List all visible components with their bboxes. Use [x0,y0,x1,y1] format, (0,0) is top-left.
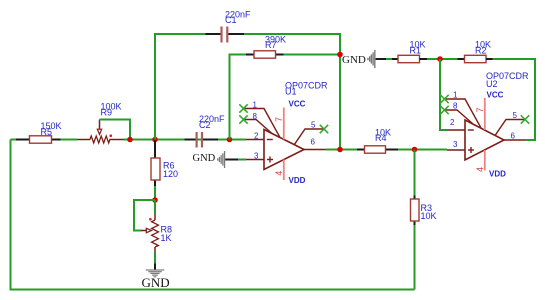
wire [326,149,448,151]
svg-text:VCC: VCC [487,91,504,100]
wire [458,58,465,60]
op-amp U2 [440,71,529,179]
node junction [337,52,343,58]
svg-text:2: 2 [450,118,455,127]
svg-text:6: 6 [511,132,516,141]
svg-text:GND: GND [142,275,170,290]
wire [493,59,536,140]
node junction [227,137,233,143]
svg-text:C2: C2 [199,120,211,130]
resistor R6 [151,141,178,187]
svg-text:GND: GND [193,153,216,164]
wire [386,149,399,151]
svg-text:1: 1 [253,101,258,110]
wire [414,221,416,225]
node junction [127,137,133,143]
wire [238,159,246,161]
svg-text:R1: R1 [410,46,422,56]
svg-text:5: 5 [311,121,316,130]
node junction [412,147,418,153]
svg-text:4: 4 [475,167,485,172]
wire [225,159,238,161]
op-amp U1 [239,81,328,186]
wire [504,139,525,141]
wire [154,252,156,264]
wire [244,34,340,150]
svg-text:U1: U1 [285,87,297,97]
wire [11,140,415,290]
ground (top) [342,50,376,68]
resistor R7 [254,35,286,59]
svg-text:VDD: VDD [489,170,506,179]
svg-text:R7: R7 [265,40,277,50]
wire [392,58,398,60]
svg-text:7: 7 [274,117,284,122]
svg-text:7: 7 [475,107,485,112]
svg-text:VDD: VDD [289,176,306,185]
svg-text:8: 8 [453,102,458,111]
wire [414,225,416,290]
wire [100,120,131,140]
wire [154,200,156,214]
svg-text:8: 8 [253,112,258,121]
resistor R3 [411,199,437,221]
wire [134,200,155,231]
svg-text:R9: R9 [101,108,113,118]
wire [386,58,392,60]
wire [486,58,493,60]
resistor R1 [398,40,426,63]
svg-text:6: 6 [311,138,316,147]
wire [154,186,156,200]
wire [414,150,416,196]
ground (bottom) [142,269,170,290]
wire [376,58,386,60]
svg-text:C1: C1 [225,15,237,25]
node junction [152,197,158,203]
svg-text:U2: U2 [486,79,498,89]
node junction [337,147,343,153]
wire [11,139,78,141]
svg-text:R4: R4 [375,133,387,143]
svg-text:R2: R2 [475,46,487,56]
svg-text:120: 120 [163,169,178,179]
wire [124,139,246,141]
node junction [152,137,158,143]
svg-text:VCC: VCC [289,100,306,109]
svg-text:10K: 10K [421,211,437,221]
wire [16,139,30,141]
svg-text:1: 1 [453,91,458,100]
resistor R4 [365,128,392,154]
wire [440,59,447,130]
wire [155,34,206,140]
wire [357,149,365,151]
wire [246,54,254,56]
svg-text:1K: 1K [161,233,172,243]
wire [230,55,247,140]
resistor R5 [30,121,62,143]
capacitor C1 [206,10,252,43]
potentiometer R9 [77,102,124,144]
wire [414,196,416,200]
wire [52,139,61,141]
wire [304,149,326,151]
svg-text:3: 3 [453,140,458,149]
wire [420,58,428,60]
potentiometer R8 [141,214,172,252]
wire [427,58,458,60]
node junction [437,56,443,62]
ground (C2 side) [193,151,226,168]
resistor R2 [465,40,492,63]
svg-text:5: 5 [513,111,518,120]
wire [276,54,284,56]
svg-text:GND: GND [342,54,366,66]
svg-text:4: 4 [274,171,284,176]
svg-text:R5: R5 [41,127,53,137]
capacitor C2 [185,114,226,148]
svg-text:2: 2 [254,131,259,140]
svg-text:3: 3 [254,151,259,160]
wire [154,264,156,270]
wire [284,54,341,56]
